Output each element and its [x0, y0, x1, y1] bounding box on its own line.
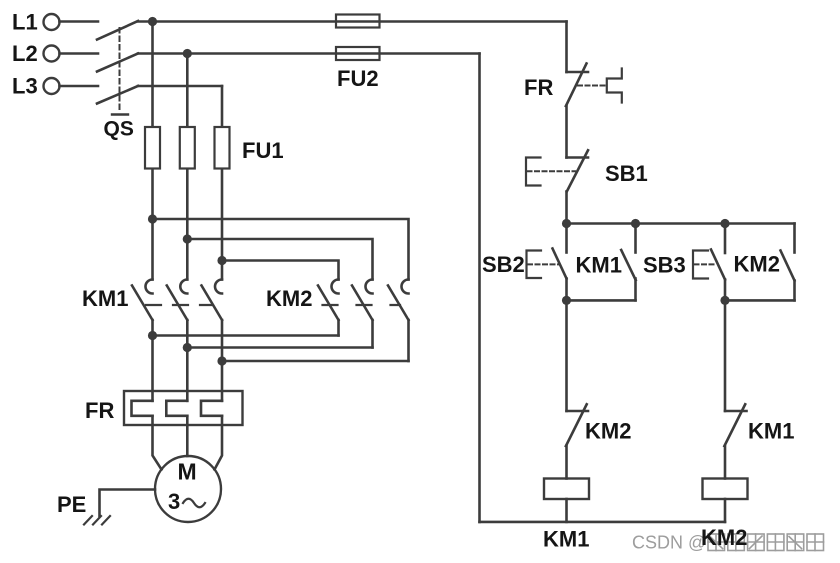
- wire merge KM2 pole 1 to phase A: [153, 334, 339, 337]
- wire KM2 pole 2 lower lead: [371, 320, 374, 348]
- button SB2 NO blade: [553, 249, 567, 279]
- wire KM1 aux lower lead: [634, 279, 637, 301]
- thermal relay FR box: [124, 391, 243, 425]
- wire KM2 aux join: [725, 299, 795, 302]
- svg-text:KM1: KM1: [543, 527, 589, 552]
- svg-text:M: M: [178, 459, 197, 485]
- contactor KM1 pole 1: [132, 280, 153, 321]
- contact KM1 interlock blade: [724, 404, 745, 446]
- wire KM2 interlock to coil: [565, 446, 568, 479]
- wire FR to SB1: [565, 106, 568, 158]
- node merge phase A: [148, 331, 157, 340]
- switch QS pole 1 blade: [97, 21, 138, 40]
- svg-text:KM1: KM1: [748, 419, 794, 444]
- wire tap phase C to KM2 pole 1: [222, 261, 339, 280]
- wire phase A to motor: [153, 416, 162, 470]
- wire PE to motor: [100, 490, 156, 517]
- contact FR actuator symbol: [607, 69, 622, 103]
- svg-text:SB2: SB2: [482, 252, 525, 277]
- svg-text:3: 3: [168, 489, 180, 514]
- button SB1 actuator bracket: [526, 158, 541, 186]
- coil KM2: [703, 479, 748, 500]
- node on L2 phase B: [183, 49, 192, 58]
- contactor KM2 pole 1: [318, 280, 339, 321]
- button SB2 upper lead: [565, 224, 568, 253]
- node on L1 phase A: [148, 17, 157, 26]
- contact FR NC crossbar: [567, 71, 589, 74]
- wire phase C vertical: [221, 86, 224, 280]
- wire control rung A top corner: [565, 22, 568, 73]
- fuse FU2 upper: [336, 15, 380, 28]
- wire row L3: [138, 85, 222, 88]
- node tap phase B: [183, 234, 192, 243]
- button SB1 NC blade: [567, 150, 588, 191]
- wire control bus: [567, 222, 795, 225]
- wire KM1 pole 3 lower lead: [221, 320, 224, 401]
- svg-text:FR: FR: [524, 75, 553, 100]
- wire KM1 coil to bottom: [565, 499, 568, 522]
- node bus SB3 branch: [720, 219, 729, 228]
- button SB2 actuator bracket: [527, 251, 542, 279]
- node bus left: [562, 219, 571, 228]
- heater element phase A: [132, 401, 153, 416]
- contactor KM2 linkage dashed: [323, 304, 401, 306]
- svg-text:L1: L1: [12, 10, 38, 35]
- wire KM1 interlock to coil: [724, 446, 727, 479]
- ground symbol hatches: [84, 516, 110, 525]
- wire L3 lead: [60, 85, 99, 88]
- switch QS linkage dashed: [119, 28, 121, 112]
- wire merge KM2 pole 2 to phase B: [187, 346, 372, 349]
- svg-text:KM2: KM2: [701, 525, 747, 550]
- terminal L3: [44, 78, 60, 94]
- node tap phase A: [148, 214, 157, 223]
- wire KM1 pole 1 lower lead: [151, 320, 154, 401]
- wire KM2 pole 3 lower lead: [407, 320, 410, 361]
- fuse FU2 lower: [336, 47, 380, 60]
- wire tap phase B to KM2 pole 2: [187, 239, 372, 280]
- wire phase B vertical: [186, 54, 189, 280]
- button SB3 actuator dashed: [695, 263, 718, 265]
- wire L1 lead: [60, 20, 99, 23]
- contactor KM2 pole 3: [388, 280, 409, 321]
- contact KM2 interlock blade: [566, 404, 587, 446]
- contact KM1 interlock crossbar: [725, 410, 747, 413]
- wire KM1 pole 2 lower lead: [186, 320, 189, 401]
- svg-text:SB3: SB3: [643, 253, 686, 278]
- contactor KM1 linkage dashed: [146, 304, 212, 306]
- wire left return vertical: [478, 54, 481, 522]
- wire L2 lead: [60, 52, 99, 55]
- button SB2 actuator dashed: [528, 263, 559, 265]
- button SB3 actuator bracket: [693, 251, 708, 279]
- switch QS pole 2 blade: [97, 54, 138, 72]
- contact FR actuator dashed: [578, 85, 606, 87]
- contactor KM1 pole 2: [167, 280, 188, 321]
- node SB3 KM2aux join: [720, 296, 729, 305]
- button SB1 NC crossbar: [567, 156, 589, 159]
- coil KM1: [544, 479, 589, 500]
- svg-text:SB1: SB1: [605, 161, 648, 186]
- svg-text:KM1: KM1: [82, 286, 128, 311]
- wire row L2 to control return corner: [138, 52, 480, 55]
- svg-text:CSDN @: CSDN @: [632, 533, 706, 553]
- fuse FU1 pole 3: [215, 127, 230, 169]
- terminal L2: [44, 46, 60, 62]
- contact KM2 aux NO blade: [781, 251, 795, 281]
- wire tap phase A to KM2 pole 3: [153, 219, 409, 280]
- wire merge KM2 pole 3 to phase C: [222, 360, 409, 363]
- wire phase C to motor: [215, 416, 223, 470]
- svg-text:L2: L2: [12, 41, 38, 66]
- button SB3 NO blade: [711, 250, 725, 280]
- wire row L1 to control corner: [138, 20, 567, 23]
- contactor KM2 pole 2: [352, 280, 373, 321]
- node bus KM1 aux branch: [631, 219, 640, 228]
- svg-text:FR: FR: [85, 398, 114, 423]
- wire bottom return: [480, 521, 726, 524]
- wire rung B to KM1 interlock: [724, 300, 727, 411]
- wire phase B to motor: [186, 416, 189, 456]
- wire rung A to KM2 interlock: [565, 300, 568, 411]
- motor M circle: [155, 456, 221, 522]
- contact KM2 interlock crossbar: [567, 410, 589, 413]
- terminal L1: [44, 14, 60, 30]
- svg-text:KM2: KM2: [734, 252, 780, 277]
- svg-text:QS: QS: [104, 118, 134, 141]
- svg-text:L3: L3: [12, 74, 38, 99]
- switch QS linkage end bar: [112, 113, 128, 115]
- node merge phase B: [183, 343, 192, 352]
- contact KM1 aux upper lead: [634, 224, 637, 253]
- wire SB3 lower lead: [724, 280, 727, 301]
- node merge phase C: [217, 356, 226, 365]
- heater element phase B: [166, 401, 187, 416]
- wire SB1 to bus: [565, 192, 568, 224]
- wire phase A vertical: [151, 22, 154, 280]
- wire KM1 aux join: [567, 299, 636, 302]
- svg-text:KM2: KM2: [266, 286, 312, 311]
- button SB3 upper lead: [724, 224, 727, 254]
- fuse FU1 pole 2: [180, 127, 195, 169]
- svg-text:FU2: FU2: [337, 66, 379, 91]
- contact KM2 aux upper lead: [793, 224, 796, 253]
- wire KM2 coil to bottom: [724, 499, 727, 522]
- contact FR NC blade: [566, 64, 587, 107]
- contact KM1 aux NO blade: [621, 250, 636, 280]
- svg-text:KM2: KM2: [585, 419, 631, 444]
- wire KM2 aux lower lead: [793, 281, 796, 301]
- node SB2 KM1aux join: [562, 296, 571, 305]
- wire SB2 lower lead: [565, 279, 568, 301]
- svg-text:PE: PE: [57, 492, 86, 517]
- wire KM2 pole 1 lower lead: [337, 320, 340, 336]
- motor tilde: [183, 499, 205, 508]
- node tap phase C: [217, 256, 226, 265]
- fuse FU1 pole 1: [145, 127, 160, 169]
- heater element phase C: [201, 401, 222, 416]
- svg-text:KM1: KM1: [576, 253, 622, 278]
- switch QS pole 3 blade: [97, 86, 138, 104]
- svg-text:FU1: FU1: [242, 138, 284, 163]
- contactor KM1 pole 3: [202, 280, 223, 321]
- button SB1 actuator dashed: [528, 170, 576, 172]
- watermark chinese glyph blocks: [708, 534, 824, 551]
